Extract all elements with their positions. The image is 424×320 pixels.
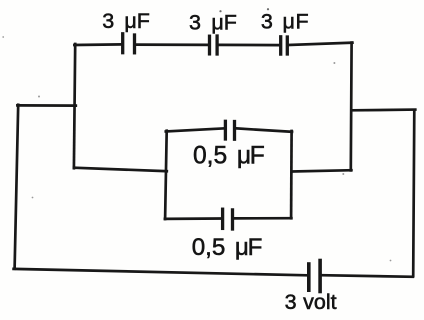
wire left stub horizontal [17, 104, 75, 107]
battery B1 plates [309, 261, 320, 292]
box top edge right segment [236, 128, 292, 131]
svg-text:3 μF: 3 μF [189, 11, 237, 35]
box left edge [165, 131, 167, 219]
wire top segment 3 [219, 44, 280, 47]
box right edge [290, 131, 293, 218]
box bottom edge right segment [234, 217, 292, 220]
wire top segment right [289, 43, 353, 45]
wire middle left [74, 168, 167, 172]
wire right outer vertical [413, 110, 414, 276]
wire left outer vertical [15, 105, 19, 269]
box bottom edge left segment [165, 217, 222, 220]
capacitor C5 0.5uF plates [223, 209, 233, 229]
wire left inner vertical [74, 44, 75, 168]
svg-text:3 volt: 3 volt [285, 290, 337, 314]
wire top segment 2 [136, 43, 208, 46]
svg-text:0,5 μF: 0,5 μF [193, 143, 265, 170]
wire top segment left [74, 43, 121, 46]
capacitor C2 3uF plates [210, 36, 218, 54]
svg-text:3 μF: 3 μF [261, 10, 309, 34]
capacitor C4 0.5uF plates [225, 121, 234, 139]
scan specks (decorative) [219, 8, 269, 12]
wire right inner vertical [349, 43, 353, 171]
wire bottom left of battery [14, 269, 307, 275]
svg-text:0,5 μF: 0,5 μF [192, 234, 263, 261]
capacitor C3 3uF plates [281, 37, 288, 54]
wire right stub horizontal [352, 108, 415, 111]
wire bottom right of battery [322, 275, 413, 277]
svg-text:3 μF: 3 μF [102, 9, 150, 33]
box top edge left segment [166, 128, 224, 131]
wire middle right [292, 170, 351, 171]
capacitor C1 3uF plates [123, 34, 135, 53]
